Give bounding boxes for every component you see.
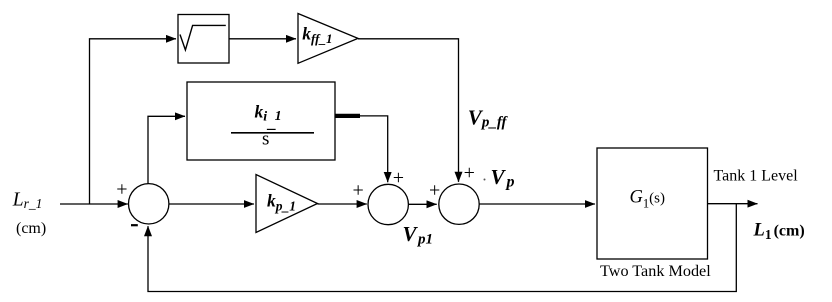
wire: input L_r_1 into sum S1 <box>60 203 128 205</box>
svg-text:+: + <box>464 162 475 184</box>
svg-text:Two Tank Model: Two Tank Model <box>600 262 711 280</box>
svg-text:Vp_ff: Vp_ff <box>468 105 509 130</box>
svg-text:+: + <box>393 167 404 189</box>
svg-text:Lr_1: Lr_1 <box>12 190 43 212</box>
sum junction S1 <box>129 184 169 224</box>
svg-text:kp_1: kp_1 <box>267 191 296 214</box>
wire: k_p_1 output to sum S2 <box>318 203 367 205</box>
sqrt glyph inside block <box>180 25 226 50</box>
fraction bar of integrator <box>231 132 314 134</box>
svg-text:Tank 1 Level: Tank 1 Level <box>714 168 799 185</box>
wire: branch up to sqrt block <box>90 39 177 204</box>
wire: S2 to S3 <box>408 203 436 205</box>
wire: integrator output down to sum S2 <box>360 116 388 182</box>
svg-text:G1(s): G1(s) <box>630 188 665 211</box>
gain k_ff_1 (triangle) <box>298 14 358 64</box>
svg-text:+: + <box>353 180 364 202</box>
wire: sum S1 up to integrator input <box>148 116 185 184</box>
svg-text:+: + <box>116 178 127 200</box>
gain k_p_1 (triangle) <box>256 175 318 233</box>
block SQRT (square root) <box>178 15 229 64</box>
block G_1(s) Two Tank Model <box>597 148 708 259</box>
svg-text:s: s <box>262 129 269 150</box>
svg-text:L1(cm): L1(cm) <box>753 221 805 243</box>
wire: feedback from output to sum S1 <box>148 204 736 292</box>
small dot before V_p <box>484 179 486 181</box>
wire: plant output with arrow (L_1) <box>708 203 758 205</box>
thick stub on integrator output <box>335 114 360 118</box>
svg-text:+: + <box>429 180 440 202</box>
svg-text:(cm): (cm) <box>16 220 46 237</box>
svg-text:kff_1: kff_1 <box>302 24 332 46</box>
sign - at S1 bottom <box>131 224 138 226</box>
wire: S3 to plant G_1(s) <box>479 203 595 205</box>
wire: S1 to gain k_p_1 <box>169 203 254 205</box>
sum junction S3 (V_p) <box>439 184 479 224</box>
sum junction S2 (V_p1) <box>368 184 408 224</box>
wire: k_ff_1 output down to sum S3 <box>358 39 459 182</box>
block integrator k_i_1/s <box>187 82 335 160</box>
wire: sqrt output to gain k_ff_1 <box>229 38 296 40</box>
svg-text:Vp1: Vp1 <box>403 222 434 248</box>
svg-text:Vp: Vp <box>491 165 515 191</box>
